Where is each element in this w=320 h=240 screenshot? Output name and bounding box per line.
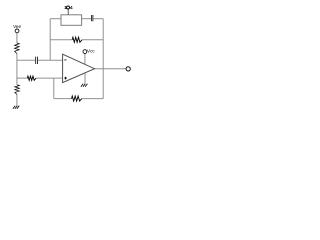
output terminal circle	[126, 67, 130, 71]
wire bottom loop right	[82, 98, 103, 100]
wire plus branch left	[17, 77, 27, 79]
svg-text:4: 4	[70, 5, 73, 10]
wire mid loop right	[82, 39, 103, 41]
wire top loop left	[50, 18, 61, 20]
wire output	[95, 68, 127, 70]
resistor R1	[15, 43, 20, 54]
wire left loop vertical	[49, 19, 51, 61]
label tick to box	[67, 9, 69, 15]
resistor R4	[72, 37, 82, 42]
wire mid loop left	[50, 39, 72, 41]
plus sign	[64, 77, 67, 80]
capacitor C2	[91, 15, 93, 21]
op-amp U1	[63, 54, 95, 82]
wire box to C2	[82, 18, 91, 20]
resistor R2	[15, 85, 20, 95]
ground left	[13, 106, 19, 109]
wire minus branch left	[17, 59, 35, 61]
wire right loop vertical	[102, 19, 104, 99]
resistor R5	[72, 96, 82, 101]
wire Vee stub	[16, 33, 18, 43]
wire plus branch right	[36, 77, 63, 79]
wire plus-node down vertical	[53, 78, 55, 99]
wire Vcc stub	[84, 54, 86, 65]
ground op-amp	[81, 84, 88, 87]
component box X1	[61, 15, 82, 25]
resistor R3	[27, 76, 36, 80]
label symbol circle	[67, 6, 70, 9]
svg-text:Vcc: Vcc	[87, 49, 95, 54]
terminal Vee circle	[15, 29, 19, 33]
wire gnd stub op-amp	[84, 73, 86, 84]
terminal Vcc circle	[83, 50, 87, 54]
capacitor C1	[36, 57, 38, 64]
wire C2 to corner	[93, 18, 103, 20]
wire minus branch right	[38, 59, 63, 61]
label symbol leads	[66, 7, 70, 9]
wire bottom loop left	[54, 98, 72, 100]
minus sign	[64, 59, 66, 61]
svg-text:Vee: Vee	[13, 24, 21, 29]
wire left rail low	[16, 95, 18, 106]
wire left rail mid	[16, 54, 18, 85]
